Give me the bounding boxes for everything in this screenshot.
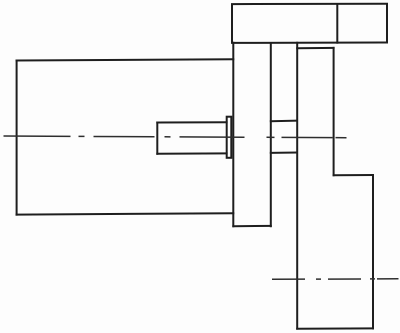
main body bottom edge	[17, 213, 234, 214]
hub lower edge	[271, 152, 297, 154]
top bar outline	[232, 4, 387, 43]
bracket bottom edge	[297, 327, 373, 329]
mounting plate bottom edge	[233, 225, 270, 227]
bracket upper right edge	[333, 48, 335, 175]
main centerline	[4, 136, 348, 138]
mounting plate left edge	[232, 43, 234, 227]
flange	[227, 117, 232, 158]
bracket top edge	[297, 47, 333, 49]
main body top edge	[17, 59, 234, 60]
shaft left edge	[156, 123, 158, 154]
bracket left edge	[296, 43, 298, 329]
top bar divider	[336, 4, 338, 43]
hub upper edge	[271, 120, 297, 123]
main body left edge	[16, 61, 18, 215]
shaft top edge	[157, 121, 226, 123]
shaft bottom edge	[157, 152, 226, 154]
bracket lower right edge	[372, 175, 374, 329]
mounting plate right edge	[270, 43, 272, 226]
lower centerline	[272, 278, 399, 281]
bracket step edge	[334, 174, 373, 176]
